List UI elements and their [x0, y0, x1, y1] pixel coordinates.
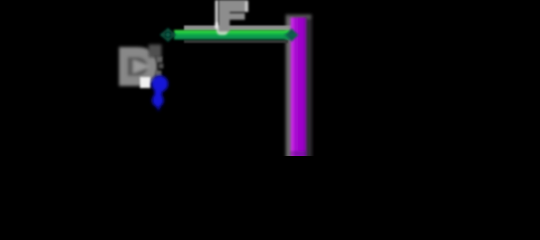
label I (blue glyph) [152, 76, 169, 112]
label B (gray symbol) [119, 47, 157, 86]
handle diamond left (arrow tail crosshair) [160, 28, 176, 42]
white square below B [140, 77, 151, 88]
artifact block top-right of B [149, 45, 162, 58]
label F highlight (white line left of stem) [215, 0, 228, 35]
label F (gray letter) [219, 0, 249, 32]
force vector F (green arrow shaft) [174, 30, 293, 40]
wire (purple vertical bar) [290, 18, 307, 160]
artifact speckles right of B [150, 57, 164, 83]
force arrow shadow (gray strips above/below green arrow) [184, 26, 292, 44]
wire shadow (gray back bar of vertical wire) [286, 15, 312, 160]
handle diamond right (arrow head on wire) [285, 28, 299, 41]
